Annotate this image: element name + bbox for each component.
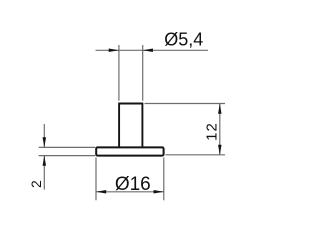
- svg-text:Ø16: Ø16: [115, 174, 151, 195]
- svg-text:Ø5,4: Ø5,4: [164, 30, 203, 50]
- svg-text:2: 2: [28, 180, 44, 188]
- svg-text:12: 12: [203, 122, 220, 141]
